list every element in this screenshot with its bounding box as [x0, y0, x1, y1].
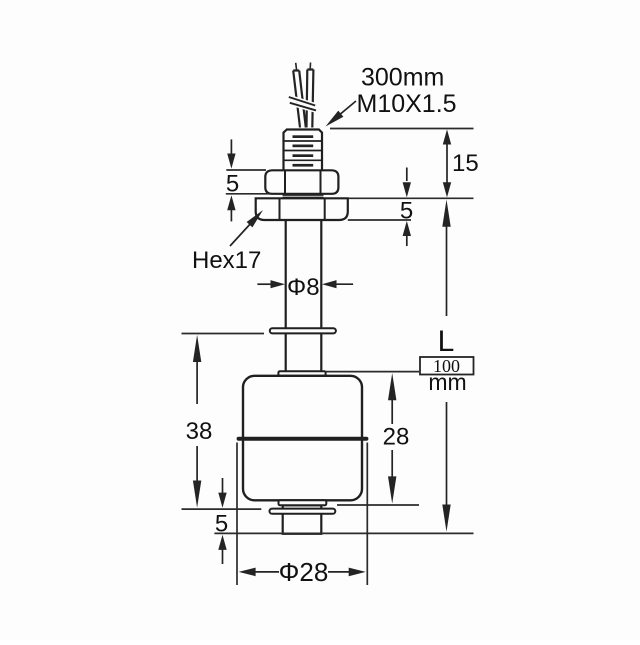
- bottom stub: [283, 505, 322, 534]
- leader M10X1.5: [326, 101, 357, 127]
- svg-text:300mm: 300mm: [361, 64, 444, 92]
- float seam (weld line): [239, 437, 367, 441]
- svg-text:28: 28: [383, 424, 410, 451]
- svg-text:M10X1.5: M10X1.5: [357, 90, 457, 118]
- dimension Φ28 (float diameter): [239, 568, 366, 577]
- extension line: gland top, to right: [330, 128, 474, 130]
- dimension 5 (bottom left, stub): [218, 478, 226, 564]
- dimension 5 (right, Hex17 nut height): [403, 168, 411, 247]
- dimension 5 (top left, locknut height): [227, 139, 235, 221]
- svg-text:Hex17: Hex17: [192, 247, 261, 274]
- float body: [243, 376, 362, 501]
- dimension L (overall length): [442, 200, 450, 532]
- thread crest bars: [293, 135, 314, 166]
- svg-text:38: 38: [186, 418, 213, 445]
- dimension Φ8 (stem diameter): [257, 280, 353, 288]
- extension line: lower nut bottom, to right: [348, 219, 411, 221]
- extension line: float left edge (Φ28): [236, 443, 238, 586]
- wire W2 (right lead): [307, 70, 314, 128]
- svg-text:5: 5: [215, 510, 228, 537]
- svg-text:L: L: [438, 325, 455, 358]
- extension line: float right edge (Φ28): [366, 443, 368, 586]
- L value box: [420, 357, 474, 375]
- extension line: stub bottom / L datum: [214, 532, 473, 534]
- svg-text:mm: mm: [428, 369, 466, 395]
- dimension 28 (right, float height): [388, 373, 396, 504]
- wire W2 bare tip: [309, 63, 311, 70]
- extension line: collar top, to right: [326, 371, 419, 373]
- svg-text:Φ28: Φ28: [279, 557, 329, 587]
- collar below float: [279, 500, 327, 505]
- wire W1 bare tip: [295, 63, 298, 70]
- washer under upper nut: [283, 195, 324, 197]
- retaining clip (upper): [270, 328, 336, 333]
- collar above float: [278, 371, 325, 376]
- cable break mark (double slash): [289, 97, 316, 110]
- extension line: lower nut top, to right: [348, 197, 474, 199]
- thread separation lines: [284, 141, 323, 160]
- stem (shaft): [286, 220, 322, 371]
- svg-text:15: 15: [452, 150, 479, 177]
- svg-text:5: 5: [400, 197, 413, 224]
- hex nut (upper locknut, 5 thick): [265, 170, 338, 194]
- svg-text:5: 5: [226, 170, 239, 197]
- retaining clip (lower): [270, 509, 336, 514]
- extension line: float bottom, to right: [337, 504, 419, 506]
- dimension 15 (right, gland height): [443, 129, 451, 197]
- extension line: lower clip, to left: [182, 508, 262, 510]
- dimension 38 (left, clip to clip): [193, 335, 201, 508]
- hex nut Hex17 (lower): [256, 198, 348, 220]
- svg-text:Φ8: Φ8: [287, 274, 320, 301]
- extension line: upper nut bottom, to left: [226, 193, 270, 195]
- leader Hex17: [230, 210, 263, 246]
- extension line: upper clip, to left: [182, 333, 265, 335]
- threaded gland body M10X1.5: [284, 130, 323, 171]
- extension line: upper nut top, to left: [226, 169, 266, 171]
- wire W1 (left lead): [293, 71, 306, 128]
